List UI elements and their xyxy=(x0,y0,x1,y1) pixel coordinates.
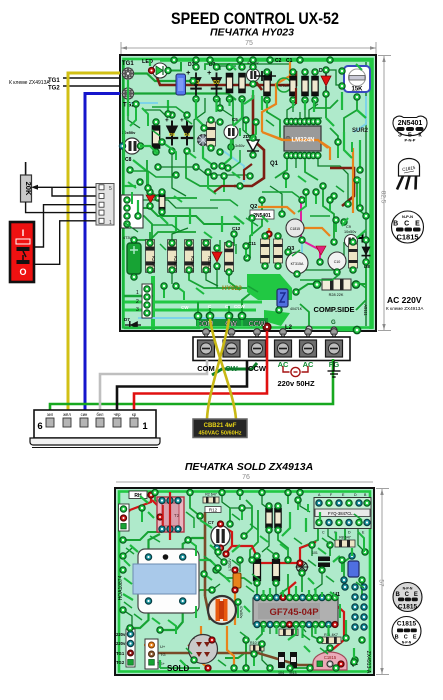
svg-text:К клеме ZX4913A: К клеме ZX4913A xyxy=(9,80,50,86)
svg-text:+: + xyxy=(180,117,184,124)
svg-text:2: 2 xyxy=(136,299,139,305)
svg-text:C8: C8 xyxy=(125,157,132,163)
svg-text:КТ315А: КТ315А xyxy=(291,262,304,266)
svg-text:TG1: TG1 xyxy=(122,61,134,67)
svg-text:B C E: B C E xyxy=(395,592,419,598)
svg-text:+: + xyxy=(165,117,169,124)
svg-text:зел: зел xyxy=(47,412,54,417)
svg-text:+: + xyxy=(186,68,191,77)
svg-text:R8 647: R8 647 xyxy=(339,536,351,540)
svg-text:TG: TG xyxy=(160,652,166,657)
svg-text:220v 50HZ: 220v 50HZ xyxy=(277,379,315,388)
svg-text:К: К xyxy=(418,133,422,139)
svg-text:20K: 20K xyxy=(24,182,33,196)
svg-text:2N5401: 2N5401 xyxy=(398,120,423,127)
svg-text:1: 1 xyxy=(109,220,112,226)
svg-text:LED: LED xyxy=(142,59,153,65)
svg-text:C10: C10 xyxy=(334,260,341,264)
svg-text:40471K: 40471K xyxy=(290,307,303,311)
svg-text:Q1: Q1 xyxy=(270,161,279,167)
svg-text:C1815: C1815 xyxy=(397,621,417,628)
svg-text:C2: C2 xyxy=(275,58,282,64)
svg-text:R11 4K7: R11 4K7 xyxy=(324,633,338,637)
svg-text:син: син xyxy=(81,412,88,417)
svg-text:1: 1 xyxy=(142,421,148,432)
svg-text:A5111: A5111 xyxy=(363,304,368,316)
svg-text:чёр: чёр xyxy=(114,412,122,417)
svg-text:ZX4913-A: ZX4913-A xyxy=(365,651,371,674)
svg-text:LM324N: LM324N xyxy=(291,138,314,144)
svg-text:76: 76 xyxy=(242,474,250,481)
svg-text:COMP.SIDE: COMP.SIDE xyxy=(313,305,354,314)
svg-text:SUR2: SUR2 xyxy=(352,128,369,134)
svg-text:1: 1 xyxy=(136,290,139,296)
svg-text:TG2: TG2 xyxy=(48,86,60,92)
svg-text:15K: 15K xyxy=(351,87,363,93)
svg-text:AC 220V: AC 220V xyxy=(387,295,422,305)
svg-text:3: 3 xyxy=(136,307,139,313)
svg-text:L7002V: L7002V xyxy=(228,558,232,571)
svg-text:CW: CW xyxy=(225,364,238,373)
svg-text:R12: R12 xyxy=(209,508,218,513)
svg-text:CCW: CCW xyxy=(248,364,267,373)
svg-text:B C E: B C E xyxy=(393,221,422,228)
svg-text:D: D xyxy=(348,531,351,535)
svg-text:C: C xyxy=(322,531,325,535)
svg-text:TG1: TG1 xyxy=(48,78,60,84)
svg-text:CCW: CCW xyxy=(234,304,245,309)
svg-text:CCW: CCW xyxy=(249,321,266,328)
svg-text:6: 6 xyxy=(37,421,42,432)
svg-text:82,5: 82,5 xyxy=(380,191,387,204)
svg-text:T2: T2 xyxy=(174,513,180,518)
svg-text:C12: C12 xyxy=(232,226,241,231)
svg-text:COM: COM xyxy=(197,364,215,373)
svg-text:57: 57 xyxy=(378,579,385,587)
svg-text:R9 647: R9 647 xyxy=(282,625,294,629)
svg-text:R2 647: R2 647 xyxy=(205,493,217,497)
svg-text:101: 101 xyxy=(312,551,318,555)
svg-text:U+: U+ xyxy=(160,644,166,649)
svg-text:GF745-04P: GF745-04P xyxy=(269,607,319,618)
svg-text:кр: кр xyxy=(132,412,137,417)
svg-text:D7: D7 xyxy=(124,317,130,322)
svg-text:TG2: TG2 xyxy=(116,660,125,665)
svg-text:N-P-N: N-P-N xyxy=(402,641,412,645)
svg-text:10x50v: 10x50v xyxy=(344,230,356,234)
svg-text:+: + xyxy=(207,68,212,77)
svg-text:N-P-N: N-P-N xyxy=(402,214,413,219)
svg-text:D4: D4 xyxy=(184,132,190,137)
svg-text:HY023: HY023 xyxy=(222,285,242,292)
svg-text:I: I xyxy=(22,228,25,238)
svg-text:D2: D2 xyxy=(213,80,220,86)
svg-text:C1815: C1815 xyxy=(398,604,418,611)
svg-text:К клеме ZX4913A: К клеме ZX4913A xyxy=(386,306,424,311)
svg-text:5: 5 xyxy=(109,186,112,192)
svg-text:220v: 220v xyxy=(116,632,126,637)
svg-text:TG1: TG1 xyxy=(116,651,125,656)
svg-text:C1815: C1815 xyxy=(290,227,300,231)
svg-text:ПЕЧАТКА SOLD ZX4913A: ПЕЧАТКА SOLD ZX4913A xyxy=(185,461,313,473)
svg-text:жёл: жёл xyxy=(63,412,71,417)
svg-text:104: 104 xyxy=(278,671,284,675)
svg-text:O: O xyxy=(19,267,26,277)
svg-text:CBB21 4мF: CBB21 4мF xyxy=(204,423,237,429)
svg-text:47u50v: 47u50v xyxy=(239,606,243,619)
svg-text:C1: C1 xyxy=(286,58,293,64)
svg-text:ПЕЧАТКА HY023: ПЕЧАТКА HY023 xyxy=(210,27,294,39)
svg-text:220v: 220v xyxy=(116,641,126,646)
svg-text:C9: C9 xyxy=(346,225,351,229)
svg-text:TG+: TG+ xyxy=(157,661,166,666)
svg-text:+: + xyxy=(193,637,195,641)
svg-text:Q2: Q2 xyxy=(250,204,257,210)
svg-text:C1815: C1815 xyxy=(396,233,418,242)
svg-text:470uH: 470uH xyxy=(279,84,290,88)
svg-text:FYQ-3847CL...: FYQ-3847CL... xyxy=(328,511,356,516)
svg-text:HOA10874: HOA10874 xyxy=(118,575,124,600)
svg-text:CW: CW xyxy=(181,305,189,310)
svg-text:P-N-P: P-N-P xyxy=(405,138,416,143)
svg-text:R28 22K: R28 22K xyxy=(329,293,344,297)
svg-text:Э: Э xyxy=(398,133,402,139)
svg-text:D5: D5 xyxy=(169,132,175,137)
svg-text:D: D xyxy=(354,493,357,497)
svg-text:75: 75 xyxy=(245,40,253,47)
svg-text:бел: бел xyxy=(97,412,105,417)
svg-text:C7: C7 xyxy=(208,520,214,525)
svg-text:C1815: C1815 xyxy=(324,655,337,660)
svg-text:N-P-N: N-P-N xyxy=(403,587,413,591)
svg-text:450VAC 50/60Hz: 450VAC 50/60Hz xyxy=(198,431,241,437)
svg-text:SPEED CONTROL UX-52: SPEED CONTROL UX-52 xyxy=(171,10,339,28)
svg-text:G: G xyxy=(331,320,336,326)
